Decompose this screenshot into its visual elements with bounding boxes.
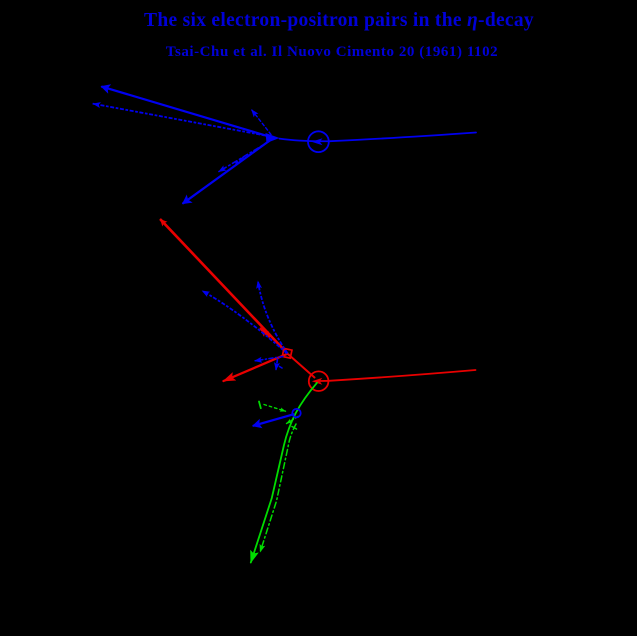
photon gamma1 dashed arrow: [252, 110, 271, 135]
track pair2 positron dash-dot arrow: [219, 142, 269, 172]
green tick of small dashed arrow: [259, 402, 261, 409]
green main track arrow: [251, 383, 317, 563]
small blue dashed arrow below V2: [276, 359, 278, 370]
track e3 red long solid arrow: [161, 220, 287, 353]
blue pair-creation circle: [292, 409, 300, 417]
track e4 red short arrow down-left: [224, 354, 288, 381]
stray dot near small arrow: [280, 367, 283, 369]
vertex V2 square: [282, 348, 292, 358]
vertex V1 blob: [266, 133, 280, 143]
red incoming track right part: [321, 370, 476, 381]
green small dashed arrow toward pair point: [264, 405, 286, 412]
track e6 blue dotted arrow up-left: [203, 291, 287, 353]
stray dashes on pair2: [236, 158, 243, 164]
small blue dash-dot arrow left of V2: [255, 357, 283, 361]
track pair1 positron dotted arrow: [94, 104, 270, 136]
track pair2 electron solid arrow: [183, 139, 272, 204]
green dash-dot secondary track arrow: [260, 424, 296, 552]
mid-track arrowhead on red long track: [261, 329, 269, 337]
red circle: [309, 371, 329, 391]
track pair1 electron solid arrow: [102, 87, 273, 138]
track e5 blue dotted curved arrow up: [258, 282, 287, 353]
title: [144, 10, 534, 32]
subtitle reference: [166, 44, 498, 61]
green short dashed arrow below pair point: [287, 417, 299, 424]
measurement circle on eta track: [308, 131, 329, 152]
eta incoming track right part: [280, 133, 477, 142]
arrowhead inside blue circle: [312, 138, 323, 145]
blue arrow from pair circle: [254, 414, 294, 425]
green stray dash: [292, 427, 297, 430]
red track V2 to circle: [289, 355, 315, 378]
arrowhead inside red circle: [312, 378, 323, 385]
